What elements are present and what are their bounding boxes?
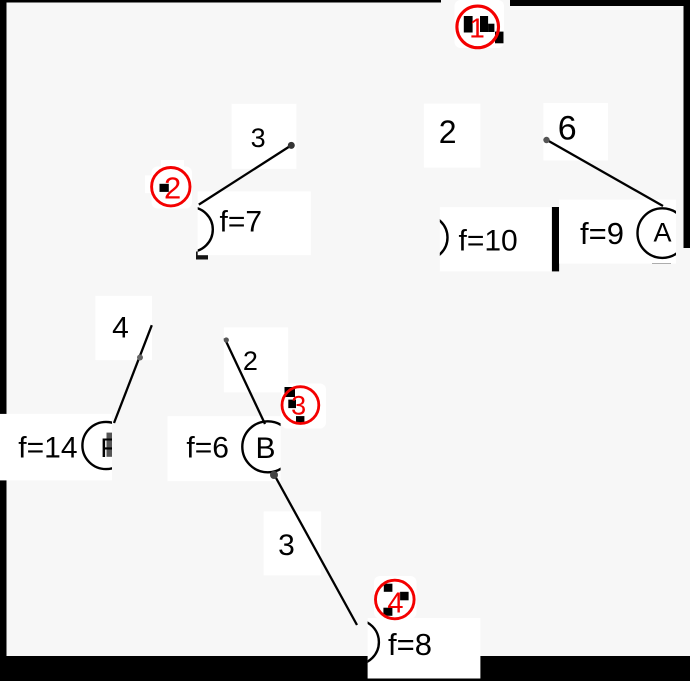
expansion marker 4: black patches <box>384 584 393 592</box>
expansion marker 3: red ring <box>282 387 319 424</box>
dot at bottom crossing <box>137 355 143 361</box>
label box 6 (edge weight root->A) <box>543 103 608 161</box>
svg-text:A: A <box>653 218 671 248</box>
edge line root->node2 (through box 3) <box>199 144 293 205</box>
dark smudge below node A <box>652 257 671 264</box>
svg-text:B: B <box>255 432 275 465</box>
node circle F, clipped <box>82 422 129 469</box>
svg-text:6: 6 <box>558 110 577 148</box>
edge line node2->F (through box 4) <box>114 325 152 423</box>
label box 2 (edge weight root->node f=10) <box>424 104 480 168</box>
dot at upper end <box>270 471 278 479</box>
black smudge at f=7 box bottom-left corner <box>196 252 208 260</box>
svg-text:2: 2 <box>439 114 457 150</box>
black gap bar between f=10 and f=9 boxes <box>552 207 559 271</box>
expansion marker 3: black patches <box>285 387 296 397</box>
edge line B->node f=8 (through box 3) <box>273 473 357 625</box>
node circle (f=10 child), clipped <box>403 215 448 260</box>
bottom edge band <box>0 656 690 681</box>
label box 2 (edge weight node2->B) <box>224 327 288 392</box>
svg-text:4: 4 <box>387 588 403 620</box>
svg-text:2: 2 <box>243 346 258 376</box>
edge line root->A (through box 6) <box>544 139 663 207</box>
label box f=10 <box>440 207 552 271</box>
dot at upper end of line <box>288 142 295 149</box>
top edge strip (left part, thin) <box>0 0 441 3</box>
svg-text:2: 2 <box>164 170 181 205</box>
expansion marker 1: black patches <box>464 16 473 33</box>
node circle (f=8 child), clipped <box>334 620 379 665</box>
node circle B, clipped <box>242 421 293 472</box>
svg-text:3: 3 <box>251 123 266 153</box>
dot at upper end <box>224 337 229 342</box>
white halo behind marker 3 <box>281 384 326 429</box>
expansion marker 2: black patch <box>160 184 169 192</box>
dot at left end <box>543 137 549 143</box>
label box 3 (edge weight root->node2) <box>232 104 297 169</box>
svg-text:1: 1 <box>469 13 485 44</box>
svg-text:f=9: f=9 <box>580 216 624 251</box>
svg-text:f=14: f=14 <box>18 432 77 465</box>
label box f=7 <box>198 191 311 255</box>
svg-text:f=6: f=6 <box>186 432 229 465</box>
svg-text:3: 3 <box>291 390 306 420</box>
white halo behind marker 4 <box>374 576 417 619</box>
expansion marker 2: red ring <box>152 168 190 206</box>
white halo behind marker 1 <box>455 0 505 48</box>
top edge strip (right part, thicker) <box>510 0 690 6</box>
svg-text:f=7: f=7 <box>220 205 263 238</box>
label box f=9 <box>559 200 676 264</box>
label box f=6 <box>168 416 281 481</box>
svg-text:f=8: f=8 <box>388 627 432 662</box>
expansion marker 4: red ring <box>376 580 415 619</box>
label box f=8 <box>368 618 481 679</box>
label box 3 (edge weight B->node f=8) <box>264 511 321 575</box>
right edge strip <box>684 0 690 248</box>
svg-text:4: 4 <box>112 311 129 344</box>
label box 4 (edge weight node2->F) <box>95 296 152 360</box>
label box f=14 <box>0 414 112 481</box>
white halo behind marker 2 <box>152 167 193 209</box>
node circle A, clipped <box>638 208 688 258</box>
expansion marker 1: red ring <box>457 6 499 48</box>
svg-text:f=10: f=10 <box>459 225 518 258</box>
left edge strip <box>0 0 7 657</box>
svg-text:3: 3 <box>278 529 295 562</box>
edge line node2->B (through box 2) <box>225 338 265 424</box>
node circle (f=7 child), clipped by its box <box>168 207 213 252</box>
dark column right of F <box>107 433 113 457</box>
